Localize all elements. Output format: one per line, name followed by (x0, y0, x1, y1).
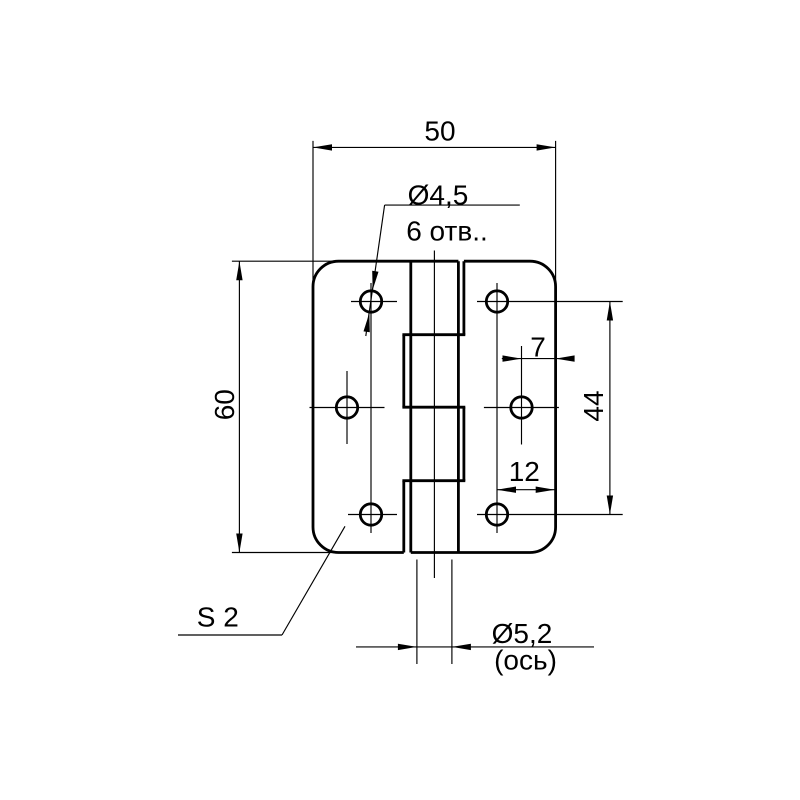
pin extension line right (451, 560, 453, 665)
bottom-right hole horizontal centerline / 44 extension (477, 514, 623, 516)
dimension 12 line (497, 489, 555, 491)
thickness S 2 shelf (178, 634, 282, 636)
hole top-right (486, 291, 507, 312)
knuckle outer edge right, segment 3 (462, 407, 465, 481)
middle-right hole horizontal centerline (484, 407, 559, 409)
dimension 44 line (609, 302, 611, 515)
dimension 50 arrow left (313, 144, 332, 150)
hinge right leaf outline (411, 261, 556, 552)
top-right hole horizontal centerline / 44 extension (477, 301, 623, 303)
dimension diameter 5,2 arrow right (452, 644, 471, 650)
leader diameter 4,5 diagonal (366, 205, 385, 336)
svg-text:44: 44 (578, 390, 609, 421)
knuckle boundary line 1 (402, 333, 465, 336)
hinge left leaf outline (313, 261, 458, 552)
leader diameter 4,5 arrow lower (364, 313, 370, 332)
pin axis centerline (433, 251, 435, 579)
svg-text:Ø4,5: Ø4,5 (408, 180, 469, 211)
dimension 60 arrow bottom (236, 534, 242, 553)
knuckle outer edge right, segment 1 (462, 261, 465, 335)
dimension 7 line (502, 358, 574, 360)
hole bottom-left (360, 504, 381, 525)
svg-text:S 2: S 2 (197, 602, 239, 633)
svg-text:6 отв..: 6 отв.. (406, 215, 488, 246)
hole top-left (360, 291, 381, 312)
knuckle boundary line 3 (402, 479, 465, 482)
right holes vertical centerline (496, 283, 498, 533)
dimension 7 arrow left (503, 355, 522, 361)
knuckle outer edge left, segment 2 (402, 335, 405, 408)
dimension 50 extension left (312, 141, 314, 290)
svg-text:12: 12 (509, 456, 540, 487)
svg-text:(ось): (ось) (494, 645, 557, 676)
top-left hole horizontal centerline (351, 301, 397, 303)
hole middle-left (336, 397, 357, 418)
dimension 60 line (238, 261, 240, 552)
left holes vertical centerline (370, 283, 372, 533)
middle-right hole vertical centerline (521, 346, 523, 445)
dimension 60 arrow top (236, 261, 242, 280)
middle-left hole vertical centerline (346, 371, 348, 444)
knuckle outer edge left, segment 4 (402, 481, 405, 553)
middle-left hole horizontal centerline (310, 407, 385, 409)
svg-text:7: 7 (530, 331, 546, 362)
dimension 44 arrow top (607, 302, 613, 321)
dimension 7 arrow right (556, 355, 575, 361)
svg-text:50: 50 (424, 115, 455, 146)
hole middle-right (511, 397, 532, 418)
dimension 12 arrow left (497, 487, 516, 493)
barrel left inner edge (409, 261, 412, 552)
dimension 44 arrow bottom (607, 496, 613, 515)
barrel right inner edge (457, 261, 460, 552)
dimension 50 extension right (555, 141, 557, 290)
dimension 60 extension bottom (232, 552, 339, 554)
leader diameter 4,5 shelf (385, 204, 520, 206)
dimension 50 arrow right (537, 144, 556, 150)
dimension 60 extension top (232, 260, 339, 262)
leader diameter 4,5 arrow upper (372, 271, 378, 290)
dimension 50 line (313, 146, 556, 148)
dimension 12 arrow right (536, 487, 555, 493)
pin extension line left (416, 560, 418, 665)
hole bottom-right (486, 504, 507, 525)
dimension diameter 5,2 line (356, 646, 594, 648)
svg-text:60: 60 (209, 389, 240, 420)
dimension diameter 5,2 arrow left (398, 644, 417, 650)
knuckle boundary line 2 (402, 406, 465, 409)
bottom-left hole horizontal centerline (348, 514, 397, 516)
thickness S 2 diagonal (282, 526, 345, 635)
